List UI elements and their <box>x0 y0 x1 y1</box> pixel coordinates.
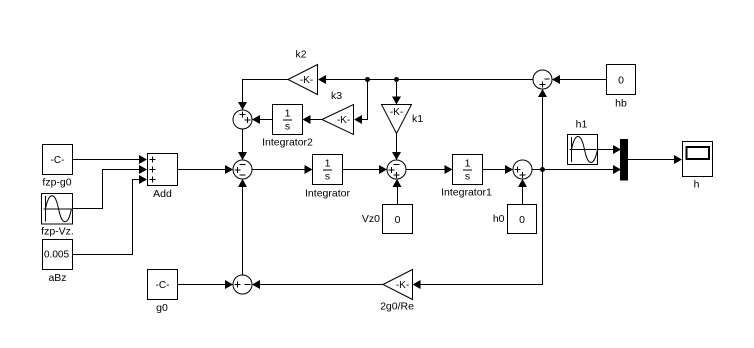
svg-text:h0: h0 <box>493 213 505 225</box>
svg-text:Integrator: Integrator <box>305 188 350 200</box>
svg-text:0: 0 <box>618 75 624 87</box>
svg-text:0.005: 0.005 <box>44 250 69 261</box>
svg-text:-C-: -C- <box>156 280 170 291</box>
svg-text:0: 0 <box>519 214 525 226</box>
svg-text:1: 1 <box>465 158 471 170</box>
svg-text:1: 1 <box>285 108 291 120</box>
svg-text:g0: g0 <box>156 302 168 314</box>
svg-text:Integrator2: Integrator2 <box>262 137 313 149</box>
svg-text:h1: h1 <box>576 119 588 131</box>
svg-text:k3: k3 <box>331 90 342 102</box>
svg-text:2g0/Re: 2g0/Re <box>380 301 414 313</box>
svg-text:Add: Add <box>153 188 172 200</box>
svg-text:-K-: -K- <box>337 115 350 126</box>
svg-text:1: 1 <box>325 158 331 170</box>
svg-text:h: h <box>694 179 700 191</box>
svg-text:s: s <box>465 171 470 183</box>
svg-text:0: 0 <box>395 214 401 226</box>
svg-text:-K-: -K- <box>396 280 409 291</box>
svg-text:-K-: -K- <box>300 75 313 86</box>
svg-text:-C-: -C- <box>51 155 65 166</box>
svg-text:s: s <box>285 121 290 133</box>
svg-text:fzp-Vz.: fzp-Vz. <box>41 226 74 238</box>
svg-text:aBz: aBz <box>48 272 66 284</box>
svg-text:-K-: -K- <box>390 107 403 118</box>
svg-text:hb: hb <box>615 98 627 110</box>
svg-text:s: s <box>325 171 330 183</box>
svg-text:k2: k2 <box>295 49 306 61</box>
svg-text:Vz0: Vz0 <box>362 213 380 225</box>
svg-text:k1: k1 <box>412 113 423 125</box>
svg-text:Integrator1: Integrator1 <box>441 187 492 199</box>
svg-text:fzp-g0: fzp-g0 <box>42 177 71 189</box>
